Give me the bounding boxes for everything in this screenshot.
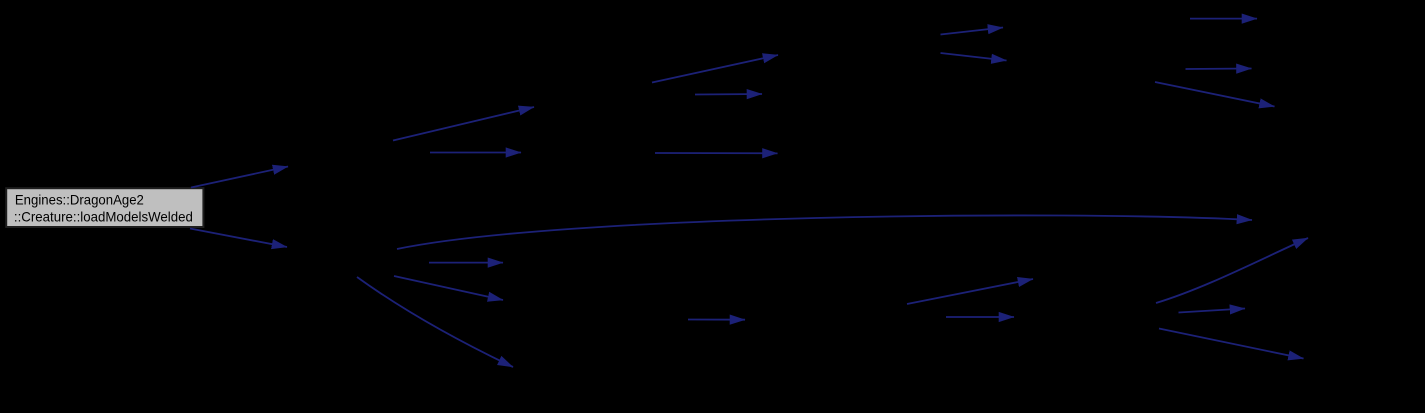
edge E14: horizontal arrow below hidden node 2 xyxy=(429,262,503,264)
edge E7: long horizontal arrow middle band xyxy=(655,152,778,154)
edge E20: rising curve far bottom-right xyxy=(1156,238,1308,303)
svg-text:Engines::DragonAge2: Engines::DragonAge2 xyxy=(15,191,144,207)
edge E4: horizontal arrow upper-left cluster xyxy=(430,152,521,154)
edge E13: long flat curve across the middle xyxy=(397,215,1252,249)
edge E5: rising arrow upper-middle xyxy=(652,55,778,83)
edge E9: slight-fall arrow top-right cluster xyxy=(941,53,1007,61)
edge E16: curved falling arrow from hidden node 2 xyxy=(357,277,513,367)
edge E11: horizontal arrow far right xyxy=(1186,68,1252,71)
edge E15: falling arrow from hidden node 2 xyxy=(394,276,503,300)
edge E8: slight-rise arrow top-right cluster xyxy=(941,28,1004,35)
edge E10: horizontal arrow far top-right xyxy=(1190,18,1257,20)
edge E22: falling arrow far bottom-right xyxy=(1159,329,1304,359)
svg-text:::Creature::loadModelsWelded: ::Creature::loadModelsWelded xyxy=(14,208,193,224)
edge E1: box to upper hidden node xyxy=(191,167,288,188)
edge E19: horizontal arrow bottom-right band xyxy=(946,316,1014,318)
edge E21: short slight-rise arrow far bottom-right xyxy=(1179,309,1246,313)
edge E3: rising arrow upper-left cluster xyxy=(393,107,534,141)
edge E17: short horizontal arrow bottom-middle xyxy=(688,319,745,321)
edge E12: falling diagonal far right xyxy=(1155,82,1275,107)
node U1: Engines::DragonAge2::Creature::loadModelsWelded (grey box) xyxy=(6,188,203,227)
edge E6: short horizontal arrow upper-middle xyxy=(695,93,762,96)
edge E18: rising arrow bottom-right band xyxy=(907,279,1033,304)
edge E2: box to lower hidden node xyxy=(190,229,287,248)
